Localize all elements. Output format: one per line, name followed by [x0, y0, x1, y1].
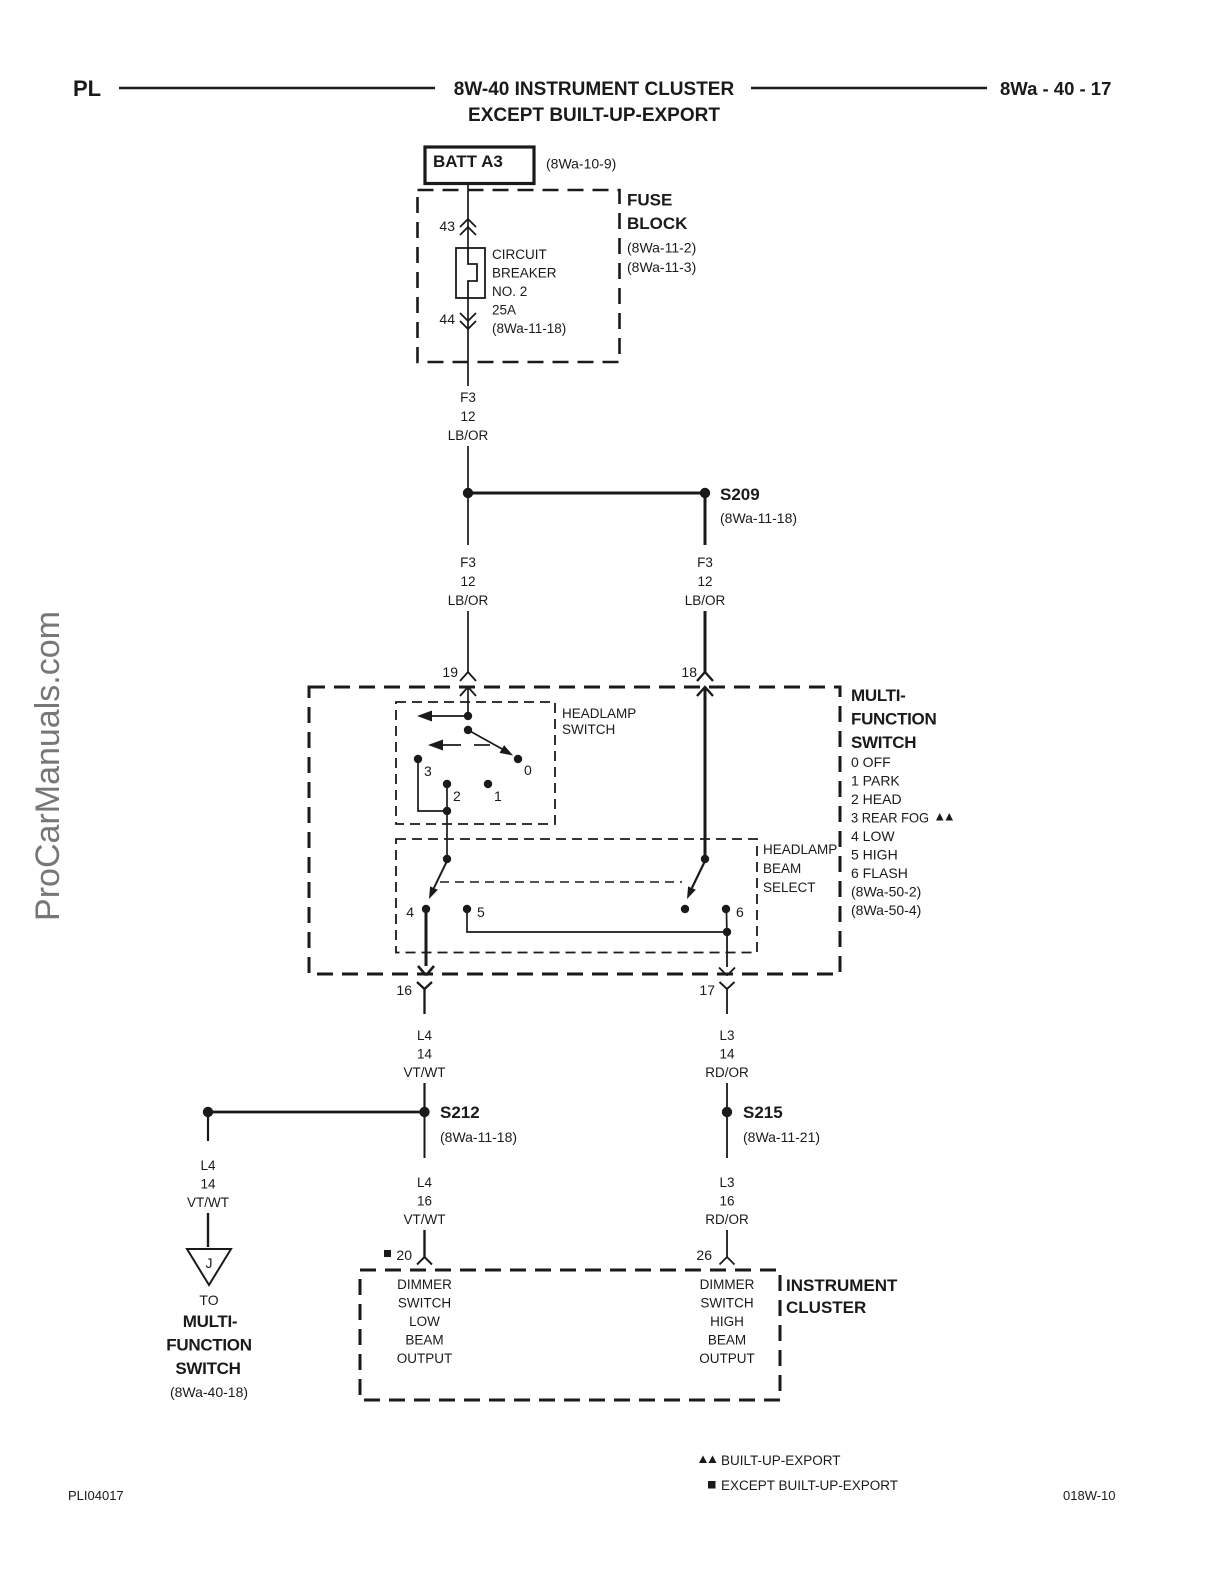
svg-text:L4: L4 [417, 1028, 433, 1043]
svg-text:EXCEPT BUILT-UP-EXPORT: EXCEPT BUILT-UP-EXPORT [721, 1478, 898, 1493]
svg-text:RD/OR: RD/OR [705, 1065, 749, 1080]
contact 6 [722, 905, 730, 913]
svg-text:RD/OR: RD/OR [705, 1212, 749, 1227]
battery feed box BATT A3 [425, 147, 534, 184]
svg-text:SWITCH: SWITCH [175, 1359, 240, 1378]
svg-text:14: 14 [200, 1177, 216, 1192]
svg-text:FUSE: FUSE [627, 191, 672, 210]
svg-text:8Wa - 40 - 17: 8Wa - 40 - 17 [1000, 78, 1111, 99]
svg-text:44: 44 [439, 311, 455, 327]
circuit breaker no. 2 [456, 248, 485, 298]
svg-text:0: 0 [524, 762, 532, 778]
svg-text:L4: L4 [200, 1158, 216, 1173]
svg-text:FUNCTION: FUNCTION [166, 1336, 251, 1355]
svg-text:BEAM: BEAM [763, 861, 801, 876]
svg-text:DIMMER: DIMMER [700, 1277, 755, 1292]
wire contact 3 to junction [418, 763, 447, 811]
contact 2 [443, 780, 451, 788]
svg-text:8W-40 INSTRUMENT CLUSTER: 8W-40 INSTRUMENT CLUSTER [454, 79, 735, 100]
svg-text:VT/WT: VT/WT [404, 1212, 446, 1227]
switch common node lower [464, 726, 472, 734]
wire breaker to F3 label [467, 298, 469, 386]
svg-text:S209: S209 [720, 485, 760, 504]
svg-text:LOW: LOW [409, 1314, 440, 1329]
svg-text:CIRCUIT: CIRCUIT [492, 247, 547, 262]
fuse block dashed box [418, 190, 620, 362]
svg-text:6 FLASH: 6 FLASH [851, 865, 908, 881]
svg-text:LB/OR: LB/OR [448, 428, 489, 443]
svg-text:BLOCK: BLOCK [627, 214, 688, 233]
svg-text:SELECT: SELECT [763, 880, 816, 895]
svg-text:BATT A3: BATT A3 [433, 152, 503, 171]
mechanical link dashed [440, 881, 682, 883]
svg-text:TO: TO [199, 1292, 218, 1308]
svg-text:2: 2 [453, 788, 461, 804]
svg-text:PL: PL [73, 76, 101, 101]
wire to S212 [423, 1083, 425, 1108]
svg-text:16: 16 [719, 1194, 734, 1209]
wire batt to breaker [467, 183, 469, 248]
svg-text:2 HEAD: 2 HEAD [851, 791, 902, 807]
svg-text:14: 14 [417, 1047, 433, 1062]
svg-text:19: 19 [442, 664, 458, 680]
headlamp switch dashed box [396, 702, 555, 824]
svg-text:J: J [206, 1255, 213, 1271]
wire to splice [467, 446, 469, 489]
svg-text:HEADLAMP: HEADLAMP [562, 706, 636, 721]
wire contact 2 down [446, 788, 448, 807]
svg-text:S212: S212 [440, 1103, 480, 1122]
svg-text:(8Wa-11-3): (8Wa-11-3) [627, 259, 696, 275]
svg-text:(8Wa-11-18): (8Wa-11-18) [720, 510, 797, 526]
svg-text:(8Wa-11-21): (8Wa-11-21) [743, 1129, 820, 1145]
svg-text:BUILT-UP-EXPORT: BUILT-UP-EXPORT [721, 1453, 841, 1468]
svg-text:F3: F3 [697, 555, 713, 570]
svg-text:MULTI-: MULTI- [851, 686, 906, 705]
svg-text:43: 43 [439, 218, 455, 234]
svg-text:4: 4 [406, 904, 414, 920]
svg-text:20: 20 [396, 1247, 412, 1263]
svg-text:(8Wa-11-18): (8Wa-11-18) [440, 1129, 517, 1145]
pin 20 connector [384, 1250, 391, 1257]
svg-text:SWITCH: SWITCH [851, 733, 916, 752]
junction node below 2 [443, 807, 451, 815]
svg-text:1: 1 [494, 788, 502, 804]
svg-text:MULTI-: MULTI- [183, 1312, 238, 1331]
svg-text:S215: S215 [743, 1103, 783, 1122]
right wire below S209 [704, 498, 707, 545]
splice S215 [722, 1107, 732, 1117]
right wiper arm [692, 861, 705, 888]
right arm contact [681, 905, 689, 913]
svg-text:F3: F3 [460, 390, 476, 405]
triangles built-up-export marker [936, 813, 944, 821]
multi-function switch dashed box [309, 687, 840, 974]
svg-text:FUNCTION: FUNCTION [851, 710, 936, 729]
svg-text:3: 3 [424, 763, 432, 779]
off-page connector J [187, 1249, 231, 1285]
wire S215 to pin 26 [726, 1117, 728, 1158]
splice crossbar wire [468, 492, 705, 495]
switch common node upper [464, 712, 472, 720]
header rule right [751, 87, 987, 90]
svg-text:OUTPUT: OUTPUT [699, 1351, 755, 1366]
wire 18 down to beam select [704, 687, 707, 859]
wire junction to beam select [446, 815, 448, 855]
contact 4 [422, 905, 430, 913]
svg-text:(8Wa-11-18): (8Wa-11-18) [492, 321, 566, 336]
svg-text:VT/WT: VT/WT [187, 1195, 229, 1210]
svg-text:LB/OR: LB/OR [448, 593, 489, 608]
svg-text:PLI04017: PLI04017 [68, 1488, 124, 1503]
left wiper arm to 4 [434, 861, 447, 888]
svg-text:F3: F3 [460, 555, 476, 570]
svg-text:HEADLAMP: HEADLAMP [763, 842, 837, 857]
headlamp beam select dashed box [396, 839, 757, 953]
beam select left pole node [443, 855, 451, 863]
svg-text:14: 14 [719, 1047, 735, 1062]
svg-text:3 REAR FOG: 3 REAR FOG [851, 810, 929, 826]
svg-text:NO. 2: NO. 2 [492, 284, 527, 299]
svg-text:ProCarManuals.com: ProCarManuals.com [29, 611, 67, 921]
splice S209 node [700, 488, 710, 498]
svg-text:BREAKER: BREAKER [492, 266, 557, 281]
beam select right pole node [701, 855, 709, 863]
svg-text:SWITCH: SWITCH [562, 722, 615, 737]
svg-text:(8Wa-50-4): (8Wa-50-4) [851, 902, 921, 918]
wiper arrow left upper [430, 715, 468, 717]
contact 3 [414, 755, 422, 763]
instrument cluster dashed box [360, 1270, 780, 1400]
svg-text:OUTPUT: OUTPUT [397, 1351, 453, 1366]
left wire below splice [467, 498, 469, 545]
svg-text:(8Wa-40-18): (8Wa-40-18) [170, 1384, 248, 1400]
svg-text:VT/WT: VT/WT [404, 1065, 446, 1080]
svg-text:5 HIGH: 5 HIGH [851, 847, 898, 863]
wire 4 down to pin 16 [425, 913, 428, 966]
contact 1 [484, 780, 492, 788]
svg-text:18: 18 [681, 664, 697, 680]
junction under 6 [723, 928, 731, 936]
svg-text:SWITCH: SWITCH [398, 1296, 451, 1311]
svg-text:12: 12 [697, 574, 712, 589]
svg-text:4 LOW: 4 LOW [851, 828, 895, 844]
svg-text:CLUSTER: CLUSTER [786, 1298, 866, 1317]
svg-text:HIGH: HIGH [710, 1314, 744, 1329]
wiper arm to contact 0 [468, 730, 503, 750]
svg-text:INSTRUMENT: INSTRUMENT [786, 1276, 898, 1295]
svg-text:26: 26 [696, 1247, 712, 1263]
splice node left [463, 488, 473, 498]
splice S212 [419, 1107, 429, 1117]
svg-text:(8Wa-50-2): (8Wa-50-2) [851, 884, 921, 900]
svg-text:SWITCH: SWITCH [700, 1296, 753, 1311]
svg-text:16: 16 [417, 1194, 432, 1209]
contact 5 [463, 905, 471, 913]
wiper arrow left lower [428, 740, 443, 751]
svg-text:(8Wa-11-2): (8Wa-11-2) [627, 240, 696, 256]
svg-text:L3: L3 [719, 1028, 734, 1043]
svg-text:L4: L4 [417, 1175, 433, 1190]
left branch wire [207, 1117, 209, 1141]
svg-text:DIMMER: DIMMER [397, 1277, 452, 1292]
svg-text:EXCEPT BUILT-UP-EXPORT: EXCEPT BUILT-UP-EXPORT [468, 105, 720, 126]
svg-text:12: 12 [460, 409, 475, 424]
svg-text:L3: L3 [719, 1175, 734, 1190]
svg-text:(8Wa-10-9): (8Wa-10-9) [546, 156, 616, 172]
svg-text:25A: 25A [492, 303, 516, 318]
svg-text:BEAM: BEAM [405, 1333, 443, 1348]
legend except built-up-export [708, 1481, 716, 1489]
svg-text:BEAM: BEAM [708, 1333, 746, 1348]
legend built-up-export [699, 1456, 707, 1464]
wire 5 to 6 riser [467, 913, 723, 932]
contact 0 [514, 755, 522, 763]
svg-text:17: 17 [699, 982, 715, 998]
svg-text:1 PARK: 1 PARK [851, 773, 900, 789]
header rule left [119, 87, 435, 90]
svg-text:018W-10: 018W-10 [1063, 1488, 1116, 1503]
svg-text:6: 6 [736, 904, 744, 920]
svg-text:5: 5 [477, 904, 485, 920]
wire 6 down to pin 17 [726, 936, 728, 967]
wire S212 to pin 20 [424, 1117, 426, 1158]
svg-text:0 OFF: 0 OFF [851, 754, 891, 770]
svg-text:16: 16 [396, 982, 412, 998]
svg-text:LB/OR: LB/OR [685, 593, 726, 608]
svg-text:12: 12 [460, 574, 475, 589]
wire to S215 [726, 1083, 728, 1108]
